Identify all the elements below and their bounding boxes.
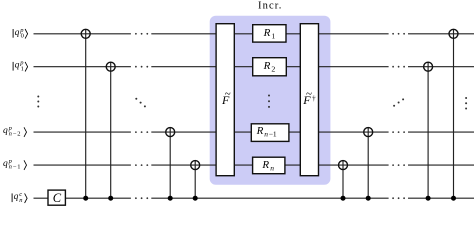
svg-text:−: −: [13, 164, 17, 171]
svg-text:R: R: [256, 125, 264, 137]
svg-text:R: R: [261, 159, 269, 171]
svg-text:†: †: [312, 93, 316, 102]
svg-text:q: q: [15, 28, 20, 38]
svg-text:−1: −1: [269, 129, 277, 138]
svg-text:1: 1: [21, 65, 24, 72]
svg-text:n: n: [270, 163, 274, 172]
svg-text:R: R: [263, 27, 271, 39]
svg-text:2: 2: [271, 65, 275, 74]
svg-text:q: q: [3, 126, 8, 136]
svg-text:1: 1: [271, 32, 275, 41]
svg-text:q: q: [14, 192, 19, 202]
svg-text:2: 2: [17, 131, 20, 138]
svg-text:n: n: [19, 197, 22, 204]
svg-text:0: 0: [21, 32, 24, 39]
svg-text:q: q: [15, 61, 20, 71]
svg-text:Incr.: Incr.: [258, 1, 282, 12]
svg-text:n: n: [9, 131, 12, 138]
svg-text:R: R: [263, 60, 271, 72]
svg-text:n: n: [9, 164, 12, 171]
svg-text:−: −: [13, 131, 17, 138]
svg-text:n: n: [264, 129, 268, 138]
svg-text:~: ~: [225, 88, 231, 100]
svg-text:q: q: [3, 159, 8, 169]
svg-text:1: 1: [17, 164, 20, 171]
svg-text:C: C: [53, 191, 62, 205]
